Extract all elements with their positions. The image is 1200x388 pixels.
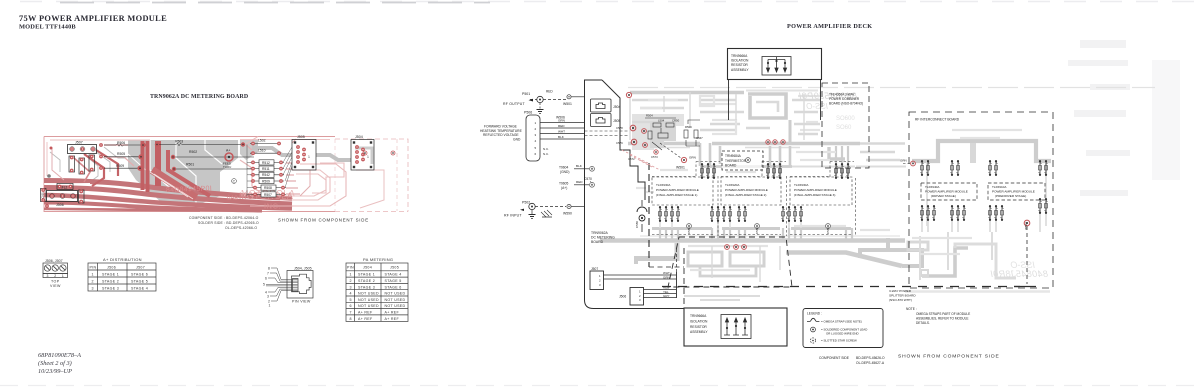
faint top deck edge line xyxy=(628,87,1155,89)
inductor L502 xyxy=(250,139,281,146)
resistor R514 vertical xyxy=(69,156,75,173)
isolation resistor assembly (bottom) xyxy=(684,308,787,346)
faint page ghost marks far right xyxy=(1068,40,1180,196)
red vertical band over blob xyxy=(141,141,145,190)
capacitor C570 xyxy=(584,177,592,184)
svg-text:8: 8 xyxy=(350,317,352,321)
svg-text:GND: GND xyxy=(513,138,521,142)
splitter label xyxy=(889,289,916,302)
svg-text:R508: R508 xyxy=(264,186,272,190)
gray thin traces upper-left xyxy=(50,147,126,182)
svg-text:= OMEGA STRAP (SEE NOTE): = OMEGA STRAP (SEE NOTE) xyxy=(821,320,862,324)
svg-text:C578: C578 xyxy=(616,126,623,130)
assembly legs xyxy=(729,80,821,121)
svg-text:RED: RED xyxy=(546,90,553,94)
gray bus mid xyxy=(628,142,860,145)
screw W501 at deck edge xyxy=(563,95,572,106)
svg-text:ASSEMBLY: ASSEMBLY xyxy=(690,330,708,334)
svg-text:NOT USED: NOT USED xyxy=(358,298,379,302)
svg-text:HEATSINK TEMPERATURE: HEATSINK TEMPERATURE xyxy=(480,129,523,133)
svg-text:A+: A+ xyxy=(226,149,230,153)
svg-text:10/23/99–UP: 10/23/99–UP xyxy=(38,368,72,375)
connector J507 xyxy=(68,145,97,154)
svg-text:TFE4060A 3-WAY: TFE4060A 3-WAY xyxy=(829,93,856,97)
svg-text:J504: J504 xyxy=(363,266,372,270)
svg-text:5: 5 xyxy=(535,146,537,150)
svg-text:J505: J505 xyxy=(297,135,305,139)
svg-text:840845J8R0I: 840845J8R0I xyxy=(990,269,1048,279)
svg-text:ISOLATION: ISOLATION xyxy=(731,59,749,63)
svg-text:STAGE 6: STAGE 6 xyxy=(131,272,148,276)
svg-text:GRN: GRN xyxy=(558,119,565,123)
light pink traces right-bottom quadrant xyxy=(280,170,330,200)
resistor R512 xyxy=(250,160,284,165)
svg-text:TOP: TOP xyxy=(51,280,60,284)
svg-text:SHOWN FROM COMPONENT SIDE: SHOWN FROM COMPONENT SIDE xyxy=(898,354,1000,360)
svg-text:7: 7 xyxy=(350,311,352,315)
svg-text:ASSEMBLIES, REFER TO MODULE: ASSEMBLIES, REFER TO MODULE xyxy=(916,317,969,321)
svg-text:TRN9666A: TRN9666A xyxy=(690,314,707,318)
splitter board dashed trapezoid xyxy=(668,237,792,287)
predriver module xyxy=(988,183,1045,200)
svg-text:SPLITTER BOARD: SPLITTER BOARD xyxy=(889,293,916,297)
gray trace to J505 xyxy=(252,148,292,155)
RF interconnect board dashed outline xyxy=(909,112,1053,288)
gray elbow down-left to isolation assembly xyxy=(637,243,677,259)
module3 upper leads xyxy=(835,163,850,179)
isolated pad right xyxy=(363,151,367,155)
svg-text:BOARD (NSO-8704NO): BOARD (NSO-8704NO) xyxy=(829,102,863,106)
svg-text:2: 2 xyxy=(350,279,352,283)
svg-text:STAGE 6: STAGE 6 xyxy=(385,285,402,289)
svg-text:SHOWN FROM COMPONENT SIDE: SHOWN FROM COMPONENT SIDE xyxy=(278,218,369,223)
resistor arrows (down) xyxy=(766,57,786,72)
svg-text:STAGE 1: STAGE 1 xyxy=(102,272,119,276)
svg-text:BLK: BLK xyxy=(576,164,583,168)
red screws on lower bus xyxy=(725,245,747,250)
svg-text:6: 6 xyxy=(350,304,352,308)
svg-text:4: 4 xyxy=(350,292,352,296)
svg-text:A+ REF: A+ REF xyxy=(358,317,373,321)
isolated pad far right xyxy=(391,151,395,155)
svg-text:CR50: CR50 xyxy=(672,119,680,123)
svg-text:TLF6930A: TLF6930A xyxy=(656,183,671,187)
board outline (DC metering PCB) xyxy=(44,136,335,138)
note text xyxy=(906,307,970,325)
svg-text:BOARD: BOARD xyxy=(725,164,737,168)
svg-text:NOT USED: NOT USED xyxy=(385,304,406,308)
driver module leads lower xyxy=(921,205,966,221)
svg-text:ASSEMBLY: ASSEMBLY xyxy=(731,68,749,72)
svg-text:TRN9666A: TRN9666A xyxy=(731,54,748,58)
svg-text:TLF6940A: TLF6940A xyxy=(925,185,940,189)
svg-text:(A+): (A+) xyxy=(561,186,567,190)
RF interconnect board gray staple xyxy=(912,141,1051,161)
svg-text:L502: L502 xyxy=(258,139,266,143)
white channel accents xyxy=(44,183,90,186)
svg-text:A+ REF: A+ REF xyxy=(385,311,400,315)
connector P502 RF INPUT xyxy=(504,201,585,219)
driver module lead stubs gray xyxy=(922,210,1040,232)
svg-text:GRN: GRN xyxy=(663,275,670,279)
inductor L501 xyxy=(250,148,281,155)
resistor R507 xyxy=(252,192,286,197)
svg-text:INC.: INC. xyxy=(264,202,281,211)
svg-text:P502: P502 xyxy=(522,201,530,205)
svg-text:J504, J505: J504, J505 xyxy=(294,267,312,271)
svg-text:OL-DEPS-45627-A: OL-DEPS-45627-A xyxy=(856,361,885,365)
A+ distribution table xyxy=(88,257,156,291)
svg-text:POWER AMPLIFIER MODULE: POWER AMPLIFIER MODULE xyxy=(794,188,837,192)
svg-text:J507: J507 xyxy=(136,265,145,269)
svg-text:P501: P501 xyxy=(522,92,530,96)
svg-text:(PREDRIVER STAGE): (PREDRIVER STAGE) xyxy=(995,194,1026,198)
resistor R511 xyxy=(250,166,284,171)
module2 upper leads xyxy=(767,163,782,179)
svg-text:TRN9684A: TRN9684A xyxy=(725,154,742,158)
svg-text:R542: R542 xyxy=(262,173,270,177)
lower lead stubs xyxy=(660,228,852,240)
svg-text:3: 3 xyxy=(92,286,94,290)
svg-text:OL-DEPS-42066-O: OL-DEPS-42066-O xyxy=(225,226,257,230)
connector J506,J507 top view xyxy=(43,263,68,278)
svg-text:1: 1 xyxy=(367,155,369,159)
deck jack J505 xyxy=(591,114,612,127)
gray stubs under thermistor xyxy=(700,143,790,166)
svg-text:2: 2 xyxy=(54,274,56,278)
svg-text:PA METERING: PA METERING xyxy=(363,257,393,262)
red trace top-left J507 area xyxy=(50,139,150,141)
svg-text:FORWARD VOLTAGE: FORWARD VOLTAGE xyxy=(484,124,518,128)
component side codes right xyxy=(819,356,885,365)
svg-text:1: 1 xyxy=(269,304,271,308)
connector J507 (deck) xyxy=(590,267,676,290)
svg-text:3-WAY POWER: 3-WAY POWER xyxy=(889,289,912,293)
module3 lower leads xyxy=(782,206,803,222)
svg-text:(FINAL AMPLIFIER STAGE 2): (FINAL AMPLIFIER STAGE 2) xyxy=(725,193,766,197)
deck chassis outline xyxy=(585,80,685,309)
svg-text:RF INTERCONNECT BOARD: RF INTERCONNECT BOARD xyxy=(915,118,960,122)
pads column xyxy=(99,143,103,147)
module1 upper leads xyxy=(701,163,716,179)
svg-text:PIN: PIN xyxy=(347,266,354,270)
svg-text:W501: W501 xyxy=(676,166,685,170)
power combiner board dashed outline xyxy=(822,83,869,168)
svg-text:J505: J505 xyxy=(390,266,399,270)
extra gray fill segments deck center xyxy=(632,100,905,160)
connector J506 xyxy=(47,191,78,208)
resistor R506 xyxy=(104,141,146,148)
svg-text:RF OUTPUT: RF OUTPUT xyxy=(503,102,525,106)
P506 harness wires xyxy=(540,123,585,140)
svg-text:L510: L510 xyxy=(258,148,266,152)
svg-text:1: 1 xyxy=(62,274,64,278)
svg-text:1: 1 xyxy=(535,121,537,125)
svg-text:1: 1 xyxy=(92,272,94,276)
svg-text:RED: RED xyxy=(576,180,583,184)
svg-text:R503: R503 xyxy=(175,140,183,144)
svg-text:C: C xyxy=(233,180,236,184)
svg-text:R509: R509 xyxy=(262,179,270,183)
svg-text:NOT USED: NOT USED xyxy=(358,304,379,308)
connector J504 xyxy=(351,135,374,170)
module2 lower leads xyxy=(711,206,747,222)
svg-text:C580: C580 xyxy=(635,221,639,228)
svg-text:BD-DEPS-45626-O: BD-DEPS-45626-O xyxy=(856,356,885,360)
svg-text:5: 5 xyxy=(350,298,352,302)
wire stubs left of resistor column xyxy=(247,145,252,197)
svg-text:STAGE 3: STAGE 3 xyxy=(358,285,375,289)
svg-text:3: 3 xyxy=(350,285,352,289)
svg-text:POWER AMPLIFIER MODULE: POWER AMPLIFIER MODULE xyxy=(925,190,968,194)
svg-text:3: 3 xyxy=(535,133,537,137)
svg-text:COMPONENT SIDE: COMPONENT SIDE xyxy=(819,356,850,360)
jack pin fan-out wires xyxy=(266,268,293,301)
isolation resistor assembly (top) xyxy=(728,49,822,121)
svg-text:6: 6 xyxy=(535,152,537,156)
svg-text:R506: R506 xyxy=(117,141,125,145)
GRN screw at RF board left xyxy=(900,159,915,166)
svg-text:L504: L504 xyxy=(658,119,665,123)
big gray diagonal to right xyxy=(786,253,902,267)
svg-text:P506: P506 xyxy=(524,111,532,115)
svg-text:J506: J506 xyxy=(56,203,64,207)
svg-text:ISS-O: ISS-O xyxy=(806,102,828,111)
resistor R517 vertical bottom xyxy=(79,190,85,204)
svg-text:DC METERING: DC METERING xyxy=(591,236,615,240)
svg-text:ISOLATION: ISOLATION xyxy=(690,319,708,323)
svg-text:A+ REF: A+ REF xyxy=(385,317,400,321)
svg-text:W590: W590 xyxy=(563,212,572,216)
svg-text:J506, J507: J506, J507 xyxy=(45,259,63,263)
svg-text:N.C.: N.C. xyxy=(543,147,549,151)
svg-text:= SLOTTED STAR SCREW: = SLOTTED STAR SCREW xyxy=(821,339,857,343)
svg-text:STAGE 5: STAGE 5 xyxy=(385,279,402,283)
gray trace to combiner L xyxy=(829,147,845,159)
resistor R516 vertical xyxy=(89,155,95,172)
svg-text:STAGE 2: STAGE 2 xyxy=(102,279,119,283)
svg-text:COMPONENT SIDE : BD-DEPS-4206: COMPONENT SIDE : BD-DEPS-42064-O xyxy=(189,216,259,220)
W502 screw xyxy=(1024,220,1030,284)
svg-text:(Sheet 2 of 3): (Sheet 2 of 3) xyxy=(38,360,72,367)
svg-text:(NSO-870 WHT): (NSO-870 WHT) xyxy=(889,298,912,302)
svg-text:SOLDER SIDE : BD-DEPS-42065-O: SOLDER SIDE : BD-DEPS-42065-O xyxy=(198,221,259,225)
svg-text:1: 1 xyxy=(350,273,352,277)
red dot top-left xyxy=(50,147,53,150)
svg-text:W501: W501 xyxy=(563,102,572,106)
main lower bus xyxy=(600,238,905,243)
svg-text:BOARD: BOARD xyxy=(591,240,604,244)
svg-text:PIN: PIN xyxy=(90,265,97,269)
white channels in gray blob xyxy=(150,140,170,188)
component C551 left edge xyxy=(41,188,47,202)
svg-text:DETAILS.: DETAILS. xyxy=(916,321,930,325)
deck jack J504 xyxy=(591,99,612,112)
splitter board inner maze xyxy=(688,252,722,266)
gray copper blob upper middle xyxy=(128,140,238,204)
svg-text:POWER COMBINER: POWER COMBINER xyxy=(829,97,860,101)
pink loop below jacks xyxy=(312,163,344,193)
resistor R510 xyxy=(250,178,284,183)
svg-text:R507: R507 xyxy=(264,193,272,197)
metering board dashed outline xyxy=(648,163,650,267)
combiner loop trace xyxy=(748,94,786,118)
resistor R501 xyxy=(172,162,253,171)
pink traces upper area thin xyxy=(104,144,128,146)
harness bus vertical at deck xyxy=(676,272,678,298)
TRN9062A DC METERING BOARD label xyxy=(591,231,615,244)
component RFL2 xyxy=(57,184,73,190)
terminal T9604 (GND) xyxy=(559,164,594,174)
svg-text:N.C.: N.C. xyxy=(543,152,549,156)
PA metering table xyxy=(346,257,408,321)
svg-text:(DRIVER STAGE): (DRIVER STAGE) xyxy=(931,194,956,198)
legend box xyxy=(803,309,883,348)
svg-text:VIEW: VIEW xyxy=(50,284,61,288)
svg-text:POWER AMPLIFIER MODULE: POWER AMPLIFIER MODULE xyxy=(656,188,699,192)
svg-text:T9604: T9604 xyxy=(559,166,569,170)
A+ feed thru xyxy=(223,149,233,170)
svg-text:ISS-O: ISS-O xyxy=(1010,260,1035,270)
resistor R502 xyxy=(171,150,254,159)
svg-text:LEGEND :: LEGEND : xyxy=(807,312,822,316)
svg-text:NOT USED: NOT USED xyxy=(385,298,406,302)
resistor R542 xyxy=(250,172,284,177)
svg-text:NOT USED: NOT USED xyxy=(358,292,379,296)
red copper river bottom-left xyxy=(44,181,292,211)
svg-text:8: 8 xyxy=(268,266,270,270)
svg-text:J505: J505 xyxy=(613,119,620,123)
svg-text:68P81090E78–A: 68P81090E78–A xyxy=(38,352,81,359)
svg-text:PIN VIEW: PIN VIEW xyxy=(292,300,311,304)
connector P501 RF OUTPUT xyxy=(503,90,585,114)
svg-text:(GND): (GND) xyxy=(560,170,570,174)
svg-text:J507: J507 xyxy=(591,267,598,271)
svg-text:OR LUGGED WIRE END: OR LUGGED WIRE END xyxy=(826,332,859,336)
connector P506 xyxy=(480,111,565,162)
svg-text:R502: R502 xyxy=(189,150,197,154)
resistor R505 xyxy=(104,152,144,159)
pad bottom-left xyxy=(45,204,49,208)
resistor R515 vertical xyxy=(79,158,85,175)
svg-text:TLF6920A: TLF6920A xyxy=(725,183,740,187)
svg-text:R512: R512 xyxy=(262,161,270,165)
connector J504,J505 pin view jack xyxy=(287,271,313,299)
svg-text:C582: C582 xyxy=(755,227,759,234)
copyright mark xyxy=(232,179,237,184)
svg-text:3: 3 xyxy=(47,274,49,278)
svg-text:6: 6 xyxy=(265,276,267,280)
component cluster around C570/R504 xyxy=(616,114,703,162)
svg-text:2: 2 xyxy=(92,279,94,283)
terminal T9605 (A+) xyxy=(559,180,594,190)
svg-text:J506: J506 xyxy=(107,265,116,269)
svg-text:C579: C579 xyxy=(616,141,623,145)
svg-text:TLF6910A: TLF6910A xyxy=(992,185,1007,189)
red screws cluster xyxy=(626,92,658,154)
pcb id codes text xyxy=(189,216,259,230)
thermistor board xyxy=(722,151,763,170)
svg-text:STAGE 2: STAGE 2 xyxy=(358,279,375,283)
svg-text:TRN9062A: TRN9062A xyxy=(591,231,609,235)
svg-text:RF INPUT: RF INPUT xyxy=(504,214,522,218)
svg-text:2: 2 xyxy=(535,127,537,131)
driver module leads upper xyxy=(921,160,960,176)
svg-text:RED: RED xyxy=(558,124,565,128)
omega strap + screw on bus left xyxy=(635,200,647,232)
red screws on mid bus xyxy=(766,140,785,144)
svg-text:REFLECTED VOLTAGE: REFLECTED VOLTAGE xyxy=(483,133,519,137)
svg-text:R505: R505 xyxy=(117,152,125,156)
svg-text:POWER AMPLIFIER MODULE: POWER AMPLIFIER MODULE xyxy=(992,190,1035,194)
svg-text:POWER AMPLIFIER DECK: POWER AMPLIFIER DECK xyxy=(787,23,872,30)
svg-text:C583: C583 xyxy=(826,227,830,234)
svg-text:STAGE 1: STAGE 1 xyxy=(358,273,375,277)
svg-text:J504: J504 xyxy=(355,135,363,139)
top gray bus xyxy=(630,91,744,95)
svg-text:WHT: WHT xyxy=(558,130,565,134)
module upper lead stubs xyxy=(702,164,780,178)
svg-text:J504: J504 xyxy=(613,105,620,109)
svg-text:THRU: THRU xyxy=(223,165,231,169)
module1 lower leads xyxy=(659,206,680,222)
svg-text:STAGE 4: STAGE 4 xyxy=(385,273,402,277)
svg-text:MODEL TTF1440B: MODEL TTF1440B xyxy=(19,24,76,31)
svg-text:GRY: GRY xyxy=(663,294,669,298)
svg-text:BLK: BLK xyxy=(558,135,565,139)
predriver module leads upper xyxy=(989,160,1048,176)
svg-text:NOTE :: NOTE : xyxy=(906,307,917,311)
svg-text:A+ DISTRIBUTION: A+ DISTRIBUTION xyxy=(103,257,142,262)
svg-text:THERMISTOR: THERMISTOR xyxy=(725,159,747,163)
svg-text:GRN: GRN xyxy=(689,156,696,160)
svg-text:GRN: GRN xyxy=(900,159,907,163)
svg-text:3: 3 xyxy=(267,294,269,298)
svg-text:7: 7 xyxy=(267,271,269,275)
svg-text:C573: C573 xyxy=(651,155,658,159)
svg-text:5: 5 xyxy=(263,283,265,287)
predriver module leads lower xyxy=(989,198,1048,221)
svg-text:75W POWER AMPLIFIER MODULE: 75W POWER AMPLIFIER MODULE xyxy=(19,14,167,23)
svg-text:STAGE 4: STAGE 4 xyxy=(131,286,148,290)
svg-text:STAGE 5: STAGE 5 xyxy=(131,279,148,283)
svg-text:SO60: SO60 xyxy=(836,125,852,131)
driver module xyxy=(921,183,977,200)
resistor R509 xyxy=(104,164,143,171)
svg-text:POWER AMPLIFIER MODULE: POWER AMPLIFIER MODULE xyxy=(725,188,768,192)
resistor R503 xyxy=(155,140,245,147)
right-bottom gray maze xyxy=(860,250,922,266)
dark via dot xyxy=(47,174,51,178)
svg-text:A+ REF: A+ REF xyxy=(358,311,373,315)
svg-text:4: 4 xyxy=(535,139,537,143)
svg-text:1: 1 xyxy=(308,155,310,159)
connector J506 (deck) xyxy=(619,286,676,305)
svg-text:NOT USED: NOT USED xyxy=(385,292,406,296)
splitter bottom heavy dashed line xyxy=(662,286,1020,288)
svg-text:TRN9062A DC METERING BOARD: TRN9062A DC METERING BOARD xyxy=(150,94,248,100)
screw W590 xyxy=(563,204,572,215)
fan wires to J505 xyxy=(283,147,292,188)
module 3 final amplifier stage 3 xyxy=(790,177,852,205)
svg-text:RESISTOR: RESISTOR xyxy=(731,63,748,67)
svg-text:J507: J507 xyxy=(75,141,83,145)
module boundary dashes xyxy=(652,162,856,237)
module 1 final amplifier stage 1 xyxy=(652,177,713,205)
svg-text:OMEGA STRAPS PART OF MODUL: OMEGA STRAPS PART OF MODULE xyxy=(916,312,970,316)
pink dashed diagonals xyxy=(622,150,660,170)
svg-text:C551: C551 xyxy=(41,192,45,199)
